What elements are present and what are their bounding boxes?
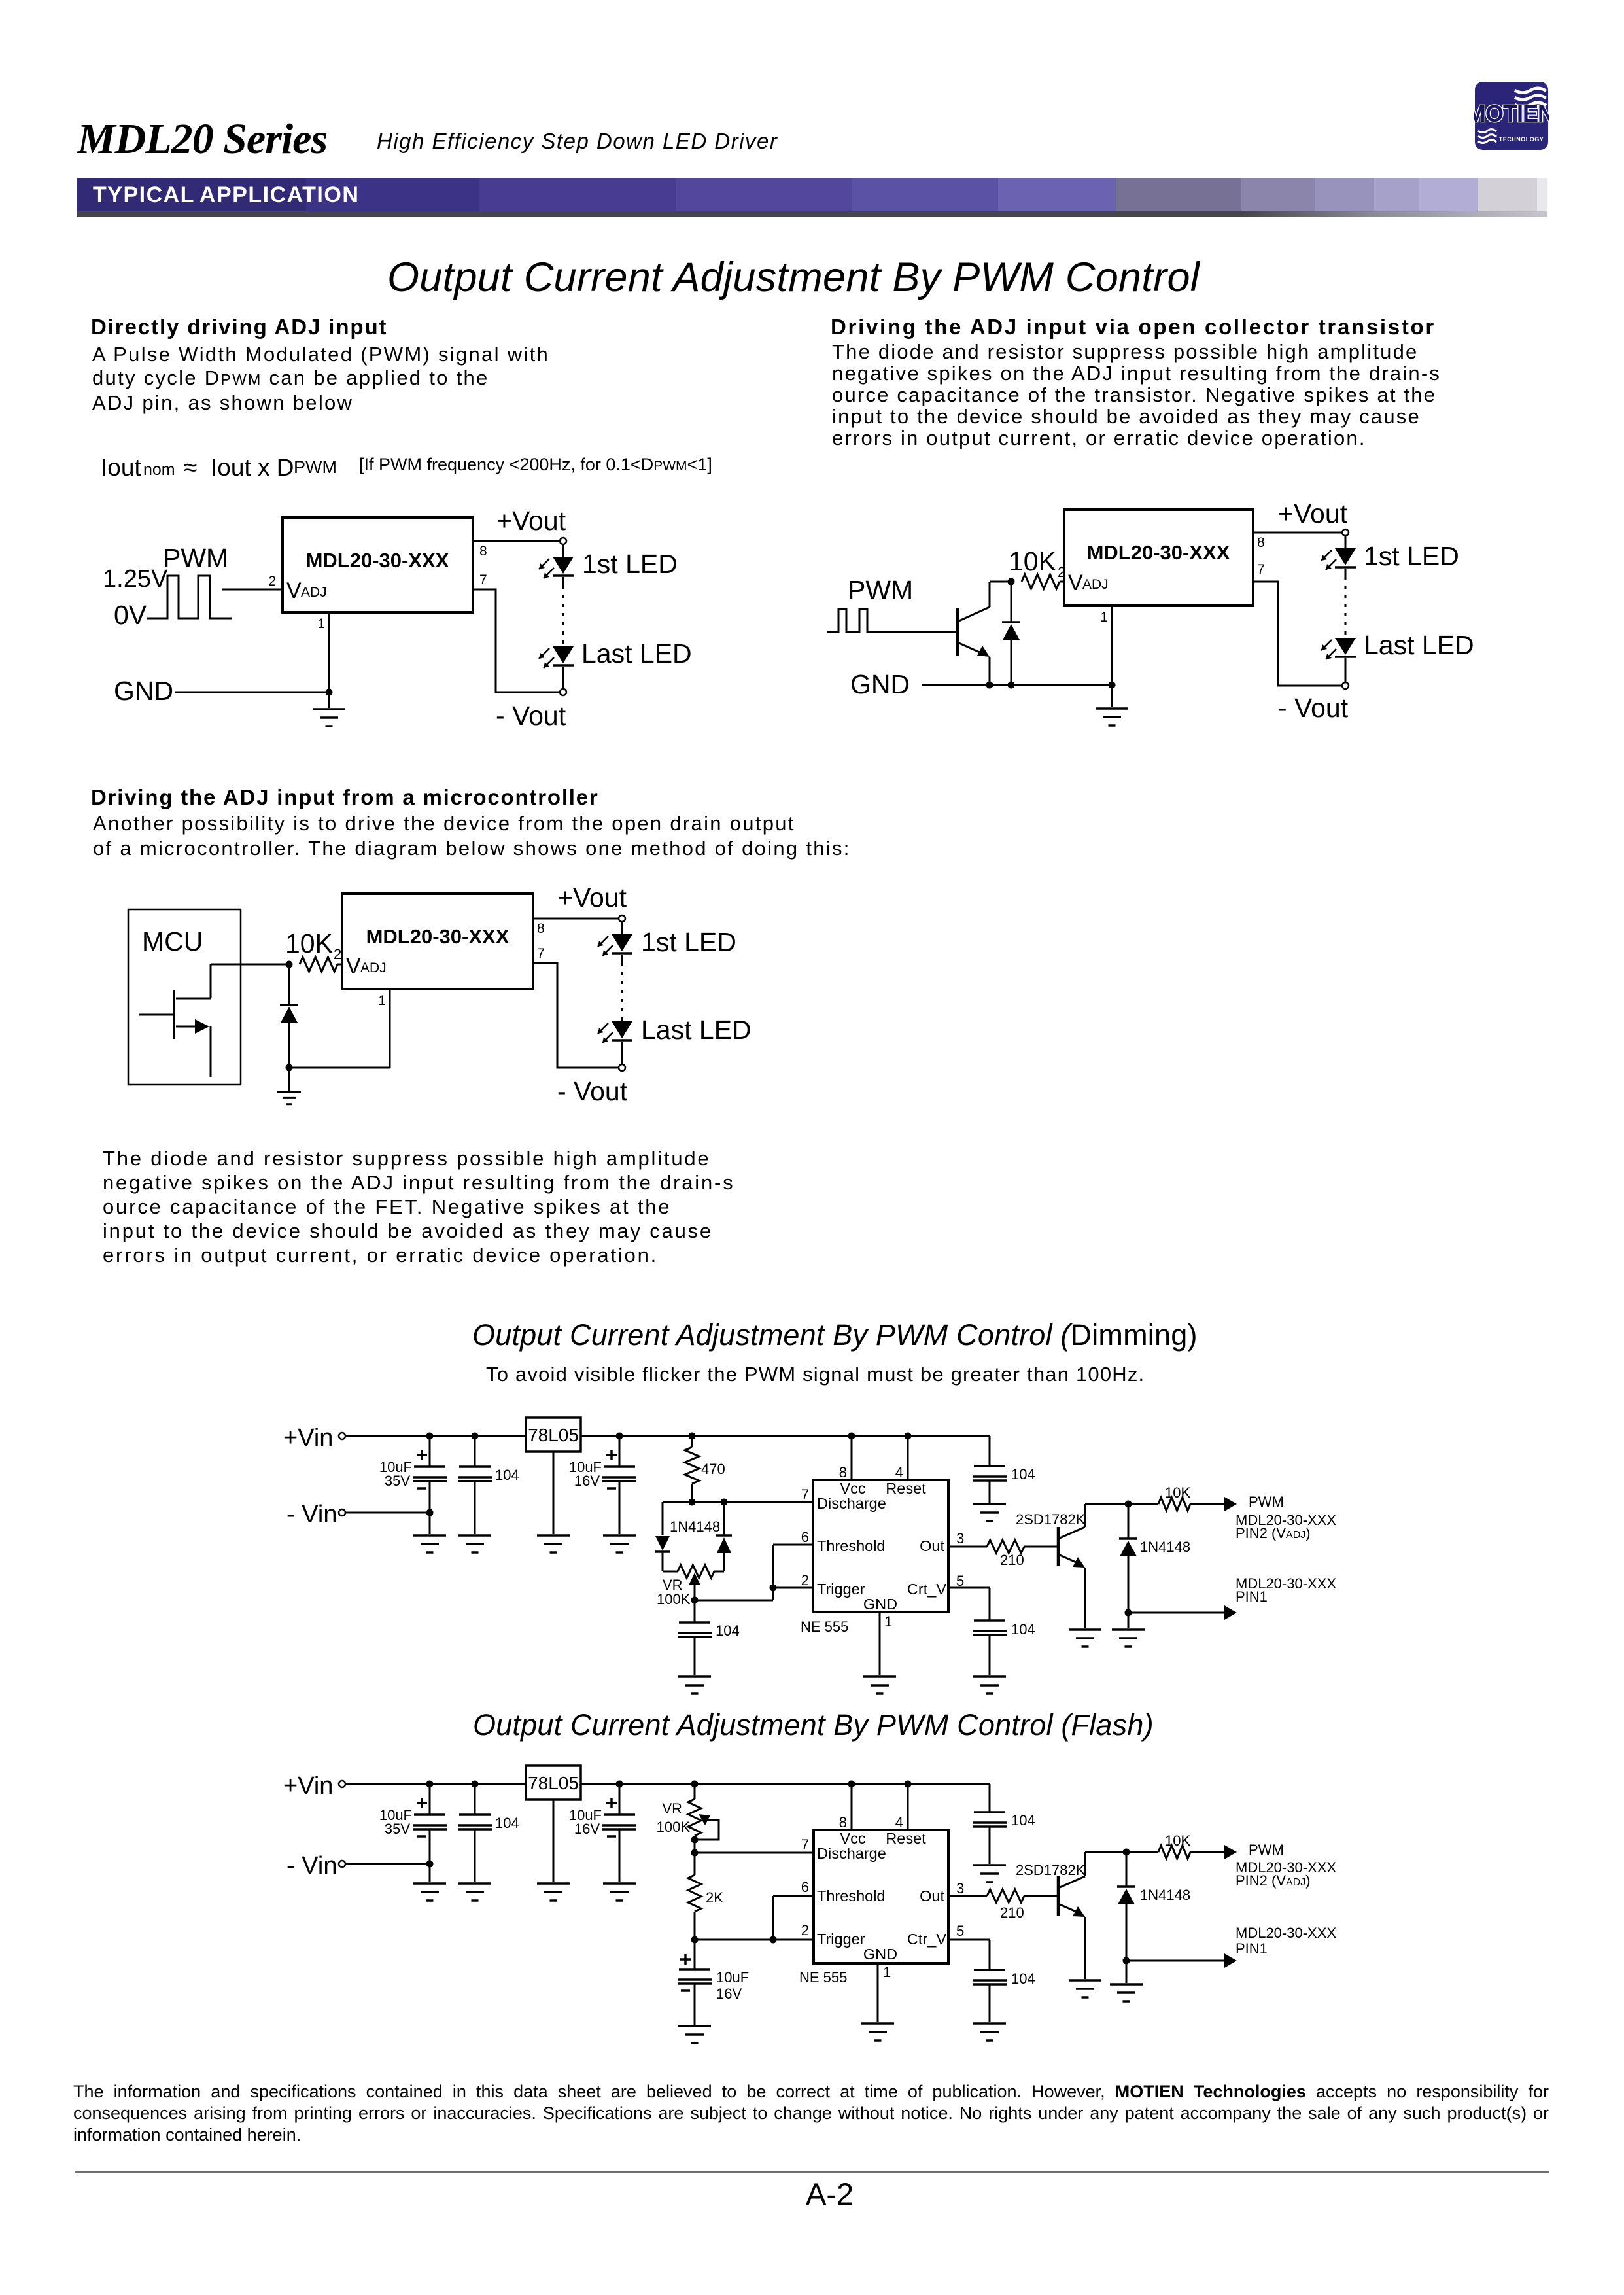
FET clamp explanation paragraph: [103, 1146, 734, 1267]
node -Vin terminal: [286, 1501, 434, 1528]
potentiometer VR 100K: [657, 1784, 719, 1853]
wire: GND pin 1: [879, 1612, 881, 1675]
capacitor C3 10uF 16V: [569, 1784, 636, 1882]
capacitor C2 104: [458, 1436, 519, 1534]
microcontroller section heading: [91, 785, 599, 810]
svg-text:7: 7: [479, 572, 487, 587]
wire: +Vin rail: [346, 1781, 990, 1788]
svg-text:- Vin: - Vin: [286, 1501, 337, 1528]
node: GND label and wire: [850, 669, 1116, 699]
svg-text:Threshold: Threshold: [817, 1887, 886, 1904]
capacitor C3 10uF 16V: [569, 1436, 636, 1534]
capacitor C1 10uF 35V: [379, 1784, 447, 1882]
right column paragraph: [832, 341, 1441, 449]
wire: bottom node to pin 1: [286, 989, 390, 1072]
wire: +Vin rail: [346, 1433, 990, 1440]
ground: [458, 1883, 491, 1901]
MCU box: [128, 909, 241, 1085]
ground: [413, 1883, 446, 1901]
wire: discharge node: [663, 1499, 813, 1506]
svg-text:10K: 10K: [285, 928, 333, 958]
svg-text:1st LED: 1st LED: [641, 927, 736, 957]
svg-text:+Vout: +Vout: [496, 506, 566, 536]
svg-text:5: 5: [956, 1573, 964, 1589]
svg-text:78L05: 78L05: [528, 1425, 579, 1445]
op-amp U1 MDL20-30-XXX driver box: [283, 517, 473, 612]
svg-text:104: 104: [495, 1467, 519, 1483]
svg-text:470: 470: [701, 1461, 725, 1477]
wire: 78L05 ground lead: [553, 1452, 555, 1534]
ground: [973, 1504, 1006, 1521]
svg-text:MDL20-30-XXX: MDL20-30-XXX: [1235, 1925, 1336, 1941]
ground: [413, 1535, 446, 1552]
resistor R2 210: [948, 1540, 1058, 1568]
resistor R1 10K: [1009, 546, 1065, 589]
node: PWM signal label: [163, 543, 228, 573]
op-amp U1 MDL20-30-XXX driver box: [342, 894, 533, 989]
ground: [1069, 1630, 1101, 1647]
ground: [973, 1865, 1006, 1882]
svg-text:PIN1: PIN1: [1235, 1940, 1268, 1957]
capacitor C5 104 control: [948, 1940, 1035, 2022]
node -Vout terminal: [1278, 682, 1349, 723]
node: PIN1 output arrow: [1125, 1575, 1337, 1620]
LED D2 (Last LED): [539, 639, 692, 688]
diode D1 clamp: [280, 964, 298, 1068]
TYPICAL APPLICATION section bar: [77, 178, 1547, 211]
svg-text:ADJ: ADJ: [301, 585, 327, 600]
LED D3 (Last LED): [598, 1015, 752, 1064]
capacitor C6 10uF 16V timing: [678, 1940, 749, 2025]
svg-text:Reset: Reset: [886, 1830, 926, 1847]
svg-text:6: 6: [801, 1879, 809, 1895]
microcontroller section paragraph: [93, 811, 851, 861]
ground: [458, 1535, 491, 1552]
svg-text:7: 7: [1257, 562, 1265, 577]
node +Vin terminal: [283, 1424, 345, 1452]
node: 0V level label: [114, 600, 147, 630]
transistor Q1 2SD1782K: [1016, 1504, 1128, 1628]
svg-text:1N4148: 1N4148: [1140, 1539, 1190, 1555]
svg-text:Trigger: Trigger: [817, 1931, 865, 1948]
node: 1.25V level label: [103, 565, 168, 593]
svg-text:+Vin: +Vin: [283, 1424, 333, 1452]
svg-text:- Vout: - Vout: [1278, 693, 1349, 723]
svg-text:PWM: PWM: [163, 543, 228, 573]
MOTIEN company logo: [1474, 81, 1549, 150]
ground: [973, 2023, 1006, 2041]
svg-text:MDL20-30-XXX: MDL20-30-XXX: [1087, 541, 1230, 564]
formula Iout_nom = Iout x D_PWM: [101, 454, 141, 482]
node -Vout terminal: [557, 1064, 628, 1106]
svg-text:Trigger: Trigger: [817, 1581, 865, 1598]
svg-text:7: 7: [537, 946, 545, 961]
wire: pin 7 to -Vout: [473, 572, 559, 692]
svg-text:35V: 35V: [385, 1821, 410, 1837]
svg-text:Reset: Reset: [886, 1480, 926, 1497]
node +Vout terminal: [557, 883, 627, 922]
op-amp U2 NE555 timer box: [801, 1480, 948, 1635]
svg-text:GND: GND: [863, 1596, 897, 1613]
svg-text:1: 1: [1100, 610, 1108, 625]
svg-text:35V: 35V: [385, 1473, 410, 1489]
svg-text:- Vout: - Vout: [496, 701, 566, 731]
node: PWM label: [848, 575, 913, 605]
diode D2 1N4148 (up): [716, 1502, 732, 1571]
svg-text:2: 2: [801, 1572, 809, 1588]
pin number labels: [801, 1486, 965, 1630]
capacitor C4 104: [973, 1436, 1035, 1503]
node: PWM output arrow: [1224, 1494, 1336, 1541]
regulator U1 78L05: [526, 1766, 581, 1800]
capacitor polarity marks: [606, 1798, 617, 1808]
diode D3 1N4148: [1117, 1852, 1190, 1961]
svg-text:GND: GND: [863, 1946, 897, 1963]
op-amp U2 NE555 timer box: [799, 1830, 948, 1986]
svg-text:1: 1: [884, 1613, 892, 1630]
resistor R2 210: [948, 1889, 1058, 1921]
wire: pin 7 to -Vout: [533, 946, 618, 1068]
svg-text:210: 210: [1000, 1552, 1024, 1568]
svg-text:1: 1: [317, 616, 325, 631]
ground: [973, 1677, 1006, 1694]
capacitor polarity marks: [417, 1798, 427, 1808]
svg-text:1N4148: 1N4148: [670, 1518, 720, 1535]
wire: drain to node: [211, 961, 293, 968]
pin number labels: [801, 1836, 965, 1980]
diode D3 1N4148: [1119, 1504, 1190, 1613]
dimming schematic title: [472, 1318, 1198, 1352]
resistor R1 2K: [688, 1853, 723, 1940]
capacitor polarity marks: [417, 1450, 427, 1460]
svg-text:PWM: PWM: [1249, 1842, 1284, 1858]
node -Vin terminal: [286, 1852, 434, 1880]
wire: threshold to trigger tie: [773, 1896, 814, 1940]
svg-text:5: 5: [956, 1923, 964, 1939]
ground: [1069, 1980, 1101, 1997]
node +Vin terminal: [283, 1772, 345, 1800]
svg-text:210: 210: [1000, 1904, 1024, 1921]
svg-text:Last LED: Last LED: [581, 639, 692, 669]
dimming subtitle: [486, 1363, 1145, 1386]
svg-text:3: 3: [956, 1880, 964, 1897]
capacitor C5 104 control: [948, 1588, 1035, 1675]
wire: pin 1 down: [1100, 606, 1112, 685]
op-amp U1 MDL20-30-XXX driver box: [1064, 510, 1253, 606]
svg-text:2K: 2K: [706, 1889, 723, 1906]
regulator U1 78L05: [526, 1418, 581, 1452]
wire: pin 1 to ground: [317, 612, 329, 708]
svg-text:Threshold: Threshold: [817, 1537, 886, 1554]
svg-text:7: 7: [801, 1836, 809, 1853]
wire: 78L05 ground lead: [553, 1800, 555, 1882]
LED D2 (1st LED): [1321, 536, 1459, 576]
svg-text:8: 8: [479, 544, 487, 559]
svg-text:104: 104: [1011, 1466, 1035, 1482]
capacitor C1 10uF 35V: [379, 1436, 447, 1534]
ground: [603, 1535, 636, 1552]
wire: trigger node: [691, 1936, 814, 1944]
node: PIN1 output arrow: [1123, 1925, 1337, 1968]
right column heading: [831, 315, 1436, 340]
resistor R1 470: [685, 1436, 725, 1502]
svg-text:2SD1782K: 2SD1782K: [1016, 1862, 1086, 1878]
label 1N4148 pair: [670, 1518, 720, 1535]
svg-text:104: 104: [495, 1815, 519, 1831]
svg-text:MDL20-30-XXX: MDL20-30-XXX: [366, 925, 510, 948]
svg-text:104: 104: [1011, 1812, 1035, 1829]
svg-text:GND: GND: [114, 676, 173, 706]
transistor Q1 2SD1782K: [1016, 1852, 1126, 1979]
svg-text:Ctr_V: Ctr_V: [907, 1931, 946, 1948]
svg-text:2: 2: [268, 574, 276, 589]
footer disclaimer paragraph: [73, 2081, 1549, 2146]
svg-text:100K: 100K: [657, 1819, 691, 1835]
LED D1 (1st LED): [539, 545, 678, 586]
ground: [863, 1677, 896, 1694]
wire: collector to node: [990, 578, 1015, 586]
ground: [1096, 685, 1128, 726]
svg-text:Discharge: Discharge: [817, 1845, 886, 1862]
svg-text:78L05: 78L05: [528, 1773, 579, 1793]
svg-text:PWM: PWM: [848, 575, 913, 605]
node +Vout terminal: [496, 506, 566, 544]
svg-text:PWM: PWM: [1249, 1494, 1284, 1510]
wire: dashed LED string: [621, 962, 623, 1021]
capacitor polarity marks: [606, 1450, 617, 1460]
svg-text:Crt_V: Crt_V: [907, 1581, 946, 1598]
svg-text:Last LED: Last LED: [1364, 630, 1474, 660]
svg-text:10K: 10K: [1165, 1832, 1190, 1849]
wire: Vcc pin 8: [839, 1436, 852, 1480]
resistor R3 10K: [1123, 1832, 1225, 1859]
svg-text:+Vin: +Vin: [283, 1772, 333, 1800]
diode D1 1N4148 (down): [655, 1502, 670, 1571]
wire: dashed LED string: [562, 586, 564, 646]
ground: [678, 1677, 711, 1694]
diode D1 clamp: [1002, 582, 1020, 685]
svg-text:V: V: [1068, 570, 1083, 595]
svg-text:Out: Out: [920, 1887, 944, 1904]
ground: [861, 2023, 894, 2041]
svg-text:104: 104: [1011, 1971, 1035, 1987]
svg-text:- Vin: - Vin: [286, 1852, 337, 1880]
page number: [806, 2176, 854, 2212]
header: subtitle: [377, 129, 778, 154]
svg-text:8: 8: [1257, 535, 1265, 550]
ground: [1110, 1961, 1143, 2001]
svg-text:GND: GND: [850, 669, 910, 699]
svg-text:1: 1: [883, 1964, 891, 1980]
svg-text:MDL20-30-XXX: MDL20-30-XXX: [306, 549, 449, 572]
svg-text:V: V: [286, 578, 302, 603]
svg-text:- Vout: - Vout: [557, 1076, 628, 1106]
ground: [1112, 1613, 1145, 1647]
ground: [603, 1883, 636, 1901]
svg-text:1st LED: 1st LED: [582, 549, 678, 579]
node -Vout terminal: [496, 689, 566, 731]
ground: [537, 1883, 570, 1901]
wire: wiper to trigger: [691, 1588, 774, 1604]
svg-text:16V: 16V: [574, 1473, 600, 1489]
svg-text:8: 8: [839, 1464, 847, 1480]
wire: PWM to VADJ pin 2: [222, 574, 283, 589]
header: series name: [77, 114, 327, 164]
wire: pin 8 to +Vout: [533, 919, 618, 936]
ground: [678, 2026, 711, 2043]
svg-text:16V: 16V: [574, 1821, 600, 1837]
wire: pin 8 to +Vout: [1253, 533, 1341, 550]
svg-text:VR: VR: [662, 1800, 682, 1817]
svg-text:10K: 10K: [1165, 1484, 1190, 1501]
svg-text:+Vout: +Vout: [557, 883, 627, 913]
wire: GND pin 1: [877, 1963, 879, 2022]
transistor Q1: [958, 582, 990, 685]
wire: pin 7 to -Vout: [1253, 562, 1341, 686]
svg-text:1st LED: 1st LED: [1364, 541, 1459, 571]
ground: [313, 709, 345, 726]
resistor R1 10K: [285, 928, 342, 972]
svg-text:6: 6: [801, 1529, 809, 1545]
svg-text:1.25V: 1.25V: [103, 565, 168, 593]
node +Vout terminal: [1278, 499, 1349, 536]
svg-text:104: 104: [1011, 1621, 1035, 1638]
svg-text:TECHNOLOGY: TECHNOLOGY: [1499, 136, 1544, 143]
resistor R3 10K: [1125, 1484, 1225, 1511]
capacitor C4 104: [973, 1784, 1035, 1864]
wire: pin 8 to +Vout: [473, 541, 559, 559]
svg-text:10uF: 10uF: [716, 1969, 749, 1986]
capacitor C6 104 timing: [678, 1600, 740, 1675]
svg-text:10K: 10K: [1009, 546, 1056, 576]
svg-text:4: 4: [895, 1464, 903, 1480]
svg-text:Discharge: Discharge: [817, 1495, 886, 1512]
LED D3 (Last LED): [1321, 630, 1474, 682]
wire: base lead: [880, 631, 958, 633]
footer rule: [75, 2171, 1549, 2173]
transistor Q1 open-drain FET inside MCU: [139, 964, 211, 1077]
svg-text:2: 2: [334, 946, 341, 962]
wire: Reset pin 4: [895, 1436, 908, 1480]
node: GND label and wire: [114, 676, 333, 706]
svg-text:2SD1782K: 2SD1782K: [1016, 1511, 1086, 1528]
svg-text:ADJ: ADJ: [1082, 577, 1109, 592]
svg-text:NE 555: NE 555: [801, 1619, 848, 1635]
svg-text:2: 2: [801, 1922, 809, 1938]
svg-text:0V: 0V: [114, 600, 147, 630]
svg-text:100K: 100K: [657, 1591, 691, 1607]
wire: Reset pin 4: [895, 1784, 908, 1831]
svg-text:3: 3: [956, 1530, 964, 1547]
svg-text:8: 8: [537, 921, 545, 936]
svg-text:MOTIEN: MOTIEN: [1474, 100, 1549, 127]
PWM input waveform: [827, 609, 880, 632]
svg-text:NE 555: NE 555: [799, 1969, 847, 1986]
svg-text:7: 7: [801, 1486, 809, 1503]
svg-text:1N4148: 1N4148: [1140, 1887, 1190, 1903]
svg-text:ADJ: ADJ: [360, 960, 387, 975]
svg-text:8: 8: [839, 1814, 847, 1831]
svg-text:+Vout: +Vout: [1278, 499, 1348, 529]
capacitor C2 104: [458, 1784, 519, 1882]
PWM input waveform: [147, 576, 232, 618]
potentiometer VR 100K: [657, 1565, 724, 1607]
svg-text:Last LED: Last LED: [641, 1015, 752, 1045]
svg-text:104: 104: [716, 1622, 740, 1639]
main title: [387, 254, 1200, 301]
svg-text:PIN1: PIN1: [1235, 1588, 1268, 1605]
svg-text:4: 4: [895, 1814, 903, 1831]
left column paragraph: [92, 343, 549, 415]
svg-text:MCU: MCU: [142, 926, 203, 956]
ground: [537, 1535, 570, 1552]
left column heading: [91, 315, 387, 340]
LED D2 (1st LED): [598, 922, 736, 962]
svg-text:16V: 16V: [716, 1986, 742, 2002]
wire: threshold to trigger tie: [770, 1545, 814, 1592]
svg-text:1: 1: [378, 993, 386, 1008]
wire: discharge tap: [691, 1849, 814, 1857]
node: PWM output arrow: [1224, 1842, 1336, 1889]
wire: dashed LED string: [1345, 576, 1347, 638]
svg-text:V: V: [346, 954, 361, 979]
svg-text:Out: Out: [920, 1537, 944, 1554]
flash schematic title: [473, 1708, 1154, 1742]
ground: [277, 1068, 301, 1104]
wire: Vcc pin 8: [839, 1784, 852, 1831]
